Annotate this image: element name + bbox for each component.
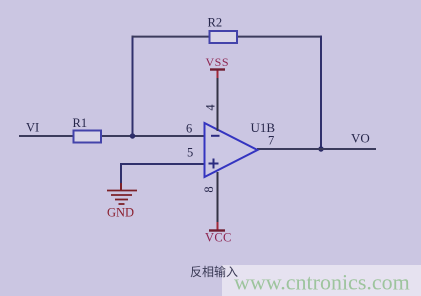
wire feedback top horizontal left of R2 xyxy=(132,36,211,38)
wire VI input horizontal xyxy=(19,135,74,137)
svg-text:5: 5 xyxy=(187,146,193,160)
svg-text:VO: VO xyxy=(351,131,370,146)
svg-text:VCC: VCC xyxy=(205,231,232,245)
resistor R2 xyxy=(208,16,238,44)
power VCC symbol xyxy=(205,222,232,245)
svg-text:反相输入: 反相输入 xyxy=(190,264,238,279)
resistor R1 xyxy=(73,116,102,143)
wire feedback left vertical xyxy=(132,36,134,137)
wire ground vertical xyxy=(120,163,122,190)
wire pin 5 horizontal xyxy=(120,163,205,165)
svg-text:GND: GND xyxy=(107,206,134,220)
wire VCC stem xyxy=(217,172,219,222)
watermark light panel xyxy=(222,265,421,296)
svg-text:4: 4 xyxy=(203,104,217,111)
node junction at output xyxy=(318,146,323,151)
svg-text:VI: VI xyxy=(26,121,39,135)
svg-text:R1: R1 xyxy=(73,116,88,130)
wire feedback top horizontal right of R2 xyxy=(237,36,323,38)
node junction at R1 output xyxy=(130,133,135,138)
svg-text:6: 6 xyxy=(186,122,192,136)
wire R1 to op-amp pin 6 xyxy=(100,135,205,137)
svg-text:VSS: VSS xyxy=(206,55,230,69)
power VSS symbol xyxy=(206,55,230,78)
wire feedback right vertical xyxy=(320,36,322,150)
svg-text:7: 7 xyxy=(268,134,274,148)
wire VSS stem xyxy=(217,77,219,131)
ground symbol xyxy=(107,183,137,220)
svg-text:www.cntronics.com: www.cntronics.com xyxy=(234,270,410,295)
op-amp U1B xyxy=(205,120,276,177)
wire output to VO xyxy=(257,148,376,150)
svg-text:8: 8 xyxy=(202,186,216,192)
svg-text:R2: R2 xyxy=(208,16,223,30)
